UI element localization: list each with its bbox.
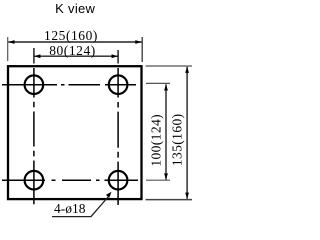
svg-text:135(160): 135(160) [170, 113, 185, 166]
centerline horizontal row 2 [2, 179, 138, 181]
extension line bottom for 135 [146, 199, 193, 201]
extension line bottom for 100 [146, 179, 170, 181]
dimension line 125(160) [8, 41, 141, 43]
hole bottom-right [109, 171, 128, 190]
svg-text:80(124): 80(124) [49, 43, 96, 58]
arrow 80 left [34, 54, 40, 58]
arrow 100 top [164, 84, 168, 90]
hole bottom-left [25, 171, 44, 190]
extension line left for 125 [7, 37, 9, 61]
hole top-right [109, 75, 128, 94]
leader line for hole callout [52, 197, 109, 217]
leader arrow [106, 192, 112, 198]
extension line right for 125 [141, 37, 143, 62]
extension line left for 80 [33, 48, 35, 64]
svg-text:100(124): 100(124) [148, 114, 163, 167]
hole top-left [25, 75, 44, 94]
arrow 80 right [112, 54, 118, 58]
centerline vertical column 1 [33, 68, 35, 204]
extension line top for 135 [146, 65, 193, 67]
arrow 125 right [135, 40, 141, 44]
extension line right for 80 [117, 50, 119, 64]
dimension line 80(124) [34, 55, 118, 57]
arrow 125 left [8, 40, 14, 44]
svg-text:K view: K view [55, 1, 95, 16]
extension line top for 100 [146, 82, 170, 84]
centerline vertical column 2 [117, 68, 119, 205]
plate outline [8, 66, 142, 199]
svg-text:125(160): 125(160) [44, 28, 98, 43]
centerline horizontal row 1 [2, 84, 136, 86]
dimension line 135(160) [186, 67, 188, 199]
dimension line 100(124) [165, 84, 167, 179]
svg-text:4-ø18: 4-ø18 [54, 201, 86, 216]
arrow 100 bottom [164, 173, 168, 179]
arrow 135 bottom [185, 193, 189, 199]
arrow 135 top [185, 67, 189, 73]
